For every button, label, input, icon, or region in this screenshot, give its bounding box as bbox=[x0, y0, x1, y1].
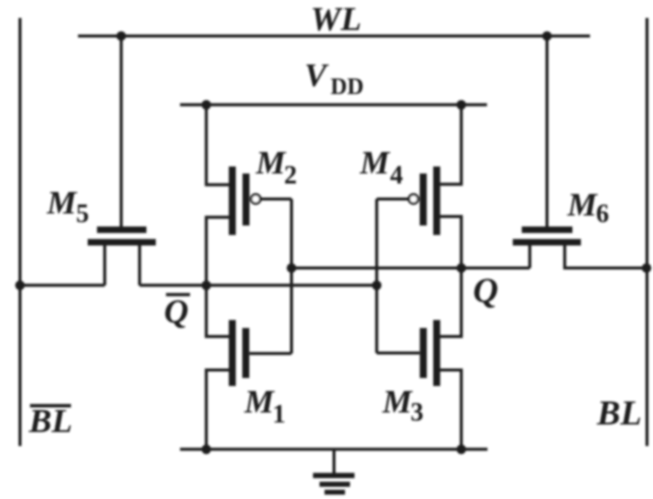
transistor M5 channel plate bbox=[88, 239, 156, 246]
svg-text:M: M bbox=[46, 186, 78, 222]
wire M1 gate to node bbox=[249, 352, 291, 355]
transistor M6 channel plate bbox=[513, 239, 581, 246]
node Q junction at right inverter bbox=[457, 263, 467, 273]
wire left inverter column middle (M2 drain to M1 drain) bbox=[206, 217, 229, 336]
transistor M4 bubble bbox=[409, 194, 418, 203]
wire M5 left terminal bbox=[103, 244, 106, 285]
wire Qbar to BLbar segment bbox=[20, 284, 105, 287]
node VDD-right junction bbox=[457, 100, 467, 110]
transistor M4 (PMOS) channel bar bbox=[433, 167, 440, 236]
node ground rail right junction bbox=[457, 445, 467, 455]
wire VDD rail bbox=[180, 103, 487, 106]
svg-text:1: 1 bbox=[273, 400, 286, 429]
svg-text:Q: Q bbox=[473, 271, 498, 310]
node Qbar junction at BLbar bbox=[15, 281, 25, 291]
ground bar 2 bbox=[320, 482, 351, 487]
svg-text:M: M bbox=[255, 146, 287, 182]
node ground rail left junction bbox=[202, 445, 212, 455]
wire right gate column (M4/M3 gates) bbox=[375, 199, 378, 353]
transistor M2 (PMOS) channel bar bbox=[229, 167, 236, 236]
transistor M3 (NMOS) channel bar bbox=[433, 320, 440, 386]
wire right inverter column upper (VDD to M4 source) bbox=[440, 105, 461, 185]
wire right inverter column lower (M3 source to ground rail) bbox=[440, 370, 461, 449]
wire BLbar bit line (left vertical) bbox=[19, 18, 22, 446]
wire M6 left terminal bbox=[528, 244, 531, 268]
wire left inverter column lower (M1 source to ground rail) bbox=[206, 370, 229, 449]
svg-text:6: 6 bbox=[596, 199, 609, 228]
node Q junction at gate column bbox=[287, 263, 297, 273]
wire M6 gate lead from WL bbox=[546, 36, 549, 227]
wire M3 gate to node bbox=[377, 352, 420, 355]
wire M2 gate to node bbox=[261, 198, 292, 201]
wire node Q horizontal line bbox=[292, 267, 530, 270]
transistor M2 bubble bbox=[251, 194, 260, 203]
svg-text:M: M bbox=[567, 188, 599, 224]
wire left inverter column upper (VDD to M2 source) bbox=[206, 105, 229, 185]
ground bar 1 bbox=[313, 473, 355, 478]
svg-text:3: 3 bbox=[411, 398, 424, 427]
transistor M3 gate bar bbox=[420, 328, 427, 378]
wire left gate column (M2/M1 gates) bbox=[290, 199, 293, 354]
wire M5 gate lead from WL bbox=[120, 36, 123, 227]
svg-text:2: 2 bbox=[284, 161, 297, 190]
wire ground rail bbox=[180, 448, 488, 451]
wire WL word line (top horizontal) bbox=[78, 35, 590, 38]
ground bar 3 bbox=[325, 490, 346, 495]
svg-text:V: V bbox=[305, 58, 330, 94]
node BL junction bbox=[642, 263, 652, 273]
transistor M6 (access) gate plate bbox=[522, 226, 573, 233]
svg-text:BL: BL bbox=[28, 403, 72, 440]
transistor M1 gate bar bbox=[242, 328, 249, 378]
svg-text:4: 4 bbox=[390, 161, 403, 190]
svg-text:DD: DD bbox=[331, 74, 364, 99]
node VDD-left junction bbox=[202, 100, 212, 110]
transistor M5 (access) gate plate bbox=[97, 226, 146, 233]
wire right inverter column middle (M4 drain to M3 drain) bbox=[440, 217, 461, 337]
svg-text:BL: BL bbox=[596, 394, 642, 433]
ground symbol tap bbox=[333, 449, 336, 473]
svg-text:5: 5 bbox=[76, 199, 89, 228]
svg-text:M: M bbox=[359, 146, 391, 182]
transistor M2 gate bar bbox=[243, 174, 250, 226]
wire M5 right terminal bbox=[138, 244, 141, 285]
transistor M4 gate bar bbox=[420, 174, 427, 226]
wire M4 gate to node bbox=[377, 198, 409, 201]
node Qbar junction at right gate column bbox=[372, 281, 382, 291]
node Qbar junction at left inverter bbox=[202, 281, 212, 291]
wire BL bit line (right vertical) bbox=[646, 18, 649, 446]
label Qbar overline bbox=[166, 293, 190, 296]
svg-text:M: M bbox=[382, 385, 414, 421]
node WL-M5 junction bbox=[116, 31, 126, 41]
svg-text:WL: WL bbox=[311, 1, 362, 38]
svg-text:M: M bbox=[244, 385, 276, 421]
wire M6 right terminal to BL bbox=[565, 244, 647, 268]
transistor M1 (NMOS) channel bar bbox=[229, 320, 236, 386]
label BLbar overline bbox=[30, 404, 71, 407]
svg-text:Q: Q bbox=[164, 294, 189, 331]
wire node Qbar horizontal line bbox=[140, 284, 377, 287]
node WL-M6 junction bbox=[542, 31, 552, 41]
